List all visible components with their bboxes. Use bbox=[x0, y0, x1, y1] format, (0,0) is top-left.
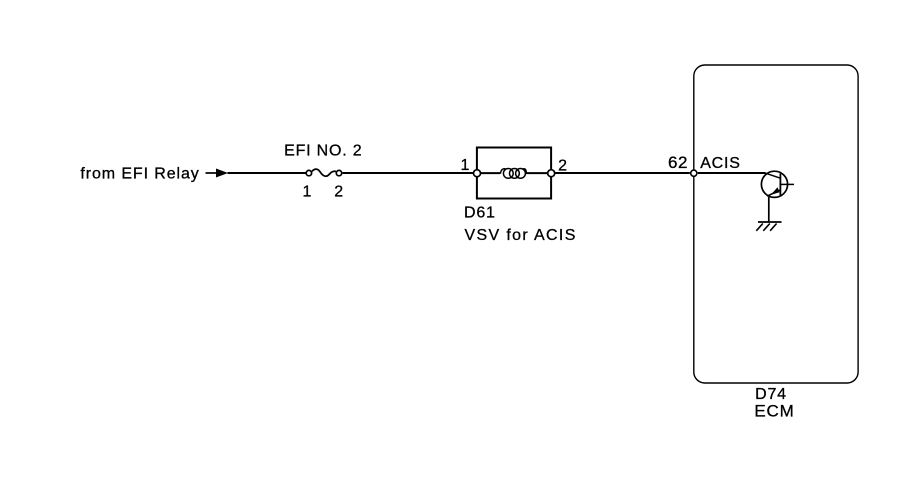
net label ACIS bbox=[700, 155, 741, 172]
wire: arrow to fuse bbox=[228, 172, 306, 174]
wire: inside VSV right bbox=[526, 172, 551, 174]
wire: VSV pin 2 to ECM pin 62 bbox=[555, 172, 690, 174]
svg-text:ECM: ECM bbox=[754, 402, 794, 421]
label VSV for ACIS bbox=[465, 227, 577, 244]
pin 2 (VSV) bbox=[548, 170, 555, 177]
pin label 1 (fuse) bbox=[303, 184, 312, 201]
svg-text:from EFI Relay: from EFI Relay bbox=[80, 165, 199, 182]
label ECM bbox=[754, 402, 794, 421]
label D74 bbox=[755, 386, 787, 403]
wire: pin 62 to transistor bbox=[698, 172, 766, 174]
transistor Q (ECM output) bbox=[761, 171, 794, 197]
label D61 bbox=[464, 205, 496, 222]
pin label 2 (VSV) bbox=[558, 158, 567, 175]
svg-text:EFI NO. 2: EFI NO. 2 bbox=[284, 143, 362, 160]
svg-text:D61: D61 bbox=[464, 205, 496, 222]
arrow: from EFI Relay feed bbox=[206, 169, 229, 178]
ECM box D74 bbox=[694, 65, 858, 383]
label: EFI NO. 2 bbox=[284, 143, 362, 160]
svg-text:62: 62 bbox=[668, 153, 688, 172]
wire: inside VSV left bbox=[477, 172, 500, 174]
coil: VSV solenoid winding bbox=[500, 169, 526, 179]
pin label 1 (VSV) bbox=[461, 157, 470, 174]
wire: emitter to ground bbox=[768, 197, 770, 222]
svg-text:VSV for ACIS: VSV for ACIS bbox=[465, 227, 577, 244]
pin label 62 bbox=[668, 153, 688, 172]
svg-text:D74: D74 bbox=[755, 386, 787, 403]
svg-text:2: 2 bbox=[334, 184, 343, 201]
svg-text:1: 1 bbox=[303, 184, 312, 201]
ground bbox=[756, 222, 781, 231]
pin 1 (VSV) bbox=[474, 170, 481, 177]
label: from EFI Relay bbox=[80, 165, 199, 182]
pin 62 (ECM) bbox=[691, 170, 697, 176]
wire: fuse to VSV pin 1 bbox=[343, 172, 474, 174]
svg-text:1: 1 bbox=[461, 157, 470, 174]
fuse EFI NO. 2 bbox=[306, 169, 342, 176]
svg-text:ACIS: ACIS bbox=[700, 155, 741, 172]
solenoid box D61 bbox=[477, 148, 551, 199]
pin label 2 (fuse) bbox=[334, 184, 343, 201]
